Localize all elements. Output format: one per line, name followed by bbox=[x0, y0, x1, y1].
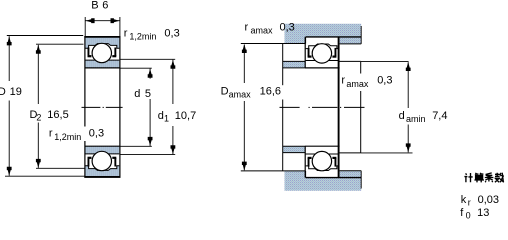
svg-text:10,7: 10,7 bbox=[175, 110, 196, 122]
计 bbox=[464, 173, 472, 182]
white text box gap behind 16,6 over shaft face line bbox=[281, 85, 286, 99]
svg-text:1,2min: 1,2min bbox=[129, 31, 156, 41]
washer top/bottom lines right bbox=[340, 60, 361, 62]
svg-text:d: d bbox=[134, 88, 140, 100]
right bearing sections bbox=[306, 44, 340, 63]
white gap for 0,3 text over left edge bbox=[84, 127, 87, 142]
shaft shoulder left top (blue) bbox=[283, 62, 306, 68]
svg-text:0,03: 0,03 bbox=[478, 194, 499, 206]
bearing outline left view bbox=[84, 37, 120, 178]
shoulder top lines + seat lines bbox=[283, 60, 305, 62]
svg-text:1: 1 bbox=[164, 114, 169, 124]
svg-text:0,3: 0,3 bbox=[164, 27, 179, 39]
shaft shoulder left bottom (blue) bbox=[283, 146, 306, 152]
svg-text:19: 19 bbox=[10, 86, 22, 98]
dimension D2 16,5 bbox=[36, 44, 85, 168]
housing outlines bbox=[241, 26, 361, 189]
算 bbox=[474, 173, 484, 183]
svg-text:6: 6 bbox=[102, 0, 108, 12]
centerline left view bbox=[82, 106, 123, 108]
svg-text:0: 0 bbox=[466, 211, 471, 221]
svg-text:k: k bbox=[461, 194, 467, 206]
dimension d_amin bbox=[361, 61, 413, 152]
svg-text:5: 5 bbox=[145, 88, 151, 100]
dimension D 19 bbox=[5, 36, 85, 177]
svg-text:amax: amax bbox=[346, 79, 369, 89]
blue outer+inner ring fills, top section bbox=[86, 37, 120, 67]
blue fills bottom section (mirrored) bbox=[86, 146, 120, 176]
dimension d1 10,7 bbox=[120, 59, 175, 154]
svg-text:1,2min: 1,2min bbox=[54, 132, 81, 142]
svg-text:0,3: 0,3 bbox=[377, 75, 392, 87]
svg-text:0,3: 0,3 bbox=[280, 22, 295, 34]
svg-text:d: d bbox=[158, 110, 164, 122]
svg-text:2: 2 bbox=[36, 113, 41, 123]
计算系数 heading (drawn strokes, CJK not available) bbox=[464, 173, 503, 183]
section internals bottom (mirrored) bbox=[86, 151, 120, 170]
svg-text:16,6: 16,6 bbox=[260, 86, 281, 98]
svg-text:7,4: 7,4 bbox=[432, 110, 447, 122]
svg-text:r: r bbox=[468, 198, 471, 208]
outer rectangle bbox=[85, 37, 120, 178]
dimension D_amax bbox=[243, 45, 245, 171]
svg-text:13: 13 bbox=[477, 207, 489, 219]
svg-text:16,5: 16,5 bbox=[47, 109, 68, 121]
housing bottom (blue) bbox=[285, 171, 362, 191]
bore line top bbox=[85, 67, 120, 69]
centerline right view bbox=[280, 106, 365, 108]
washer right edge (interrupted by text) bbox=[360, 62, 362, 74]
svg-text:d: d bbox=[399, 110, 405, 122]
svg-text:B: B bbox=[91, 0, 98, 12]
svg-text:r: r bbox=[341, 75, 345, 87]
svg-text:amax: amax bbox=[229, 89, 252, 99]
shaft end face thick bbox=[338, 37, 340, 178]
right bearing outline bbox=[305, 37, 340, 178]
svg-text:r: r bbox=[124, 27, 128, 39]
bore line bottom bbox=[85, 145, 120, 147]
svg-text:r: r bbox=[245, 22, 249, 34]
section internals top bbox=[86, 43, 120, 62]
dimension d 5 bbox=[120, 68, 152, 146]
svg-text:amax: amax bbox=[251, 26, 274, 36]
数 bbox=[495, 173, 504, 183]
svg-text:D: D bbox=[221, 86, 229, 98]
svg-text:D: D bbox=[0, 86, 6, 98]
svg-text:r: r bbox=[49, 128, 53, 140]
housing top (blue) bbox=[285, 24, 362, 44]
系 bbox=[485, 173, 494, 182]
svg-text:amin: amin bbox=[406, 114, 426, 124]
shaft left face bbox=[282, 44, 284, 171]
svg-text:0,3: 0,3 bbox=[89, 128, 104, 140]
dimension B bbox=[85, 17, 120, 36]
